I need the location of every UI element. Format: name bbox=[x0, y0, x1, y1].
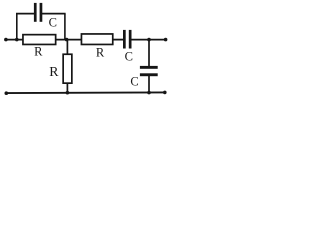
wire parallel-loop right vertical bbox=[64, 14, 66, 40]
label C2 value C bbox=[125, 49, 133, 63]
label R2 value R bbox=[96, 45, 105, 59]
wire R2 to capacitor C2 bbox=[112, 39, 124, 41]
capacitor C1 bbox=[34, 3, 42, 22]
wire parallel-loop top left segment bbox=[16, 13, 35, 15]
node output terminal dot bbox=[164, 38, 168, 42]
label R3 value R bbox=[49, 64, 59, 79]
resistor R1 bbox=[23, 35, 56, 45]
wire node B segment (between R1 and R2) bbox=[55, 39, 82, 41]
node ground-left terminal dot bbox=[5, 91, 9, 95]
svg-text:R: R bbox=[96, 45, 105, 59]
svg-text:C: C bbox=[130, 75, 138, 89]
node B junction dot bbox=[65, 38, 69, 42]
label R1 value R bbox=[34, 44, 43, 58]
wire node B to resistor R3 bbox=[66, 40, 68, 55]
resistor R2 bbox=[81, 34, 112, 45]
label C3 value C bbox=[130, 75, 138, 89]
wire capacitor C3 to ground rail bbox=[148, 76, 150, 93]
node input terminal dot bbox=[4, 38, 8, 42]
wire parallel-loop top right segment bbox=[42, 13, 66, 15]
wire resistor R3 to ground rail bbox=[66, 83, 68, 93]
wire parallel-loop left vertical bbox=[16, 14, 18, 40]
node ground junction below C3 dot bbox=[147, 91, 151, 95]
resistor R3 bbox=[63, 54, 72, 83]
wire node C to capacitor C3 bbox=[148, 40, 150, 67]
node ground-right terminal dot bbox=[163, 91, 167, 95]
svg-text:R: R bbox=[34, 44, 43, 58]
svg-text:C: C bbox=[49, 16, 57, 30]
wire ground rail bbox=[6, 91, 165, 94]
svg-text:C: C bbox=[125, 49, 133, 63]
node A junction dot bbox=[15, 38, 19, 42]
wire C2 to output terminal bbox=[131, 39, 166, 41]
capacitor C2 bbox=[123, 30, 132, 49]
node ground junction below R3 dot bbox=[66, 91, 70, 95]
svg-text:R: R bbox=[49, 64, 59, 79]
capacitor C3 bbox=[140, 66, 158, 76]
label C1 value C bbox=[49, 16, 57, 30]
wire input terminal to node A bbox=[6, 39, 24, 41]
node C junction dot bbox=[147, 38, 151, 42]
